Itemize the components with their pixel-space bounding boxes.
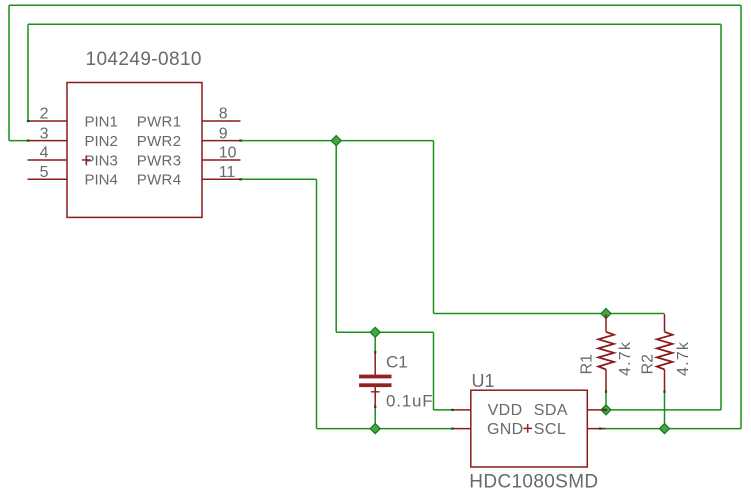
svg-text:VDD: VDD <box>488 402 523 419</box>
svg-text:2: 2 <box>40 106 49 123</box>
junction R1 top <box>601 309 611 319</box>
pin 4 stub <box>28 159 68 161</box>
pin 5 stub <box>28 178 68 180</box>
wire R1 bottom <box>605 391 607 410</box>
wire net VDD branch down from pin9 junction <box>335 141 337 333</box>
capacitor C1 plate top <box>359 375 391 379</box>
pin 9 stub <box>202 140 241 142</box>
svg-text:PWR4: PWR4 <box>137 172 182 189</box>
svg-text:PIN2: PIN2 <box>85 133 118 150</box>
svg-text:GND: GND <box>487 421 523 438</box>
svg-text:4.7k: 4.7k <box>675 341 692 376</box>
node C1 top lead joint <box>374 351 376 354</box>
capacitor C1 plate bottom <box>359 383 391 387</box>
junction C1 bottom <box>370 424 380 434</box>
svg-text:PWR2: PWR2 <box>137 133 182 150</box>
wire net SCL right vertical <box>740 5 742 428</box>
svg-text:R2: R2 <box>639 354 656 375</box>
svg-text:HDC1080SMD: HDC1080SMD <box>469 472 598 493</box>
wire C1 bottom lead <box>374 407 376 429</box>
svg-text:8: 8 <box>219 106 228 123</box>
svg-text:0.1uF: 0.1uF <box>386 392 433 411</box>
svg-text:4: 4 <box>40 145 49 162</box>
resistor R1 <box>598 314 614 391</box>
junction pin9 VDD <box>331 136 341 146</box>
connector J box 104249-0810 <box>67 83 202 218</box>
svg-text:C1: C1 <box>386 352 408 371</box>
U1 pin SDA stub <box>587 409 603 411</box>
svg-text:PIN1: PIN1 <box>85 113 118 130</box>
svg-text:3: 3 <box>40 125 49 142</box>
node U1 SCL wire joint <box>599 428 602 430</box>
wire net SCL bottom horizontal <box>600 428 741 430</box>
node C1 bottom lead joint <box>374 405 376 408</box>
svg-text:U1: U1 <box>472 371 495 391</box>
node pin9 wire joint <box>239 140 242 142</box>
wire net SDA right vertical <box>720 24 722 410</box>
wire net SCL left vertical <box>8 5 10 140</box>
node U1 SDA junction overlap <box>603 409 608 411</box>
pin 3 stub <box>28 140 67 142</box>
svg-text:104249-0810: 104249-0810 <box>86 49 202 70</box>
wire net VDD into U1 VDD pin <box>434 409 453 411</box>
node U1 GND wire joint <box>451 428 454 430</box>
svg-text:SCL: SCL <box>534 421 566 438</box>
capacitor C1 origin cross <box>371 387 380 396</box>
U1 pin VDD stub <box>453 409 471 411</box>
svg-text:PWR1: PWR1 <box>137 113 182 130</box>
pin 11 stub <box>202 178 241 180</box>
U1 pin SCL stub <box>587 428 605 430</box>
U1 pin GND stub <box>453 428 471 430</box>
pin 8 stub <box>202 120 241 122</box>
junction R2 bottom SCL <box>660 424 670 434</box>
svg-text:SDA: SDA <box>534 402 568 419</box>
capacitor C1 bottom red lead <box>374 387 376 406</box>
wire net VDD horizontal through C1 top <box>336 331 433 333</box>
junction C1 top <box>370 327 380 337</box>
svg-text:5: 5 <box>40 164 49 181</box>
wire net SCL top horizontal <box>9 4 741 6</box>
svg-text:PWR3: PWR3 <box>137 152 182 169</box>
wire net GND vertical <box>316 179 318 428</box>
svg-text:9: 9 <box>219 125 228 142</box>
svg-text:11: 11 <box>219 164 236 181</box>
connector origin cross <box>82 156 91 165</box>
node R1 lead joint <box>605 390 607 393</box>
wire net SDA bottom horizontal <box>605 409 721 411</box>
svg-text:PIN3: PIN3 <box>85 152 118 169</box>
junction R1 bottom SDA <box>601 405 611 415</box>
wire net VDD horizontal to R1 R2 tops <box>434 313 665 315</box>
U1 origin cross <box>523 424 532 433</box>
wire net SDA left vertical to pin 2 <box>27 24 29 121</box>
svg-text:10: 10 <box>219 145 237 162</box>
pin 2 stub <box>28 120 67 122</box>
node U1 VDD wire joint <box>451 409 454 411</box>
node pin3 wire joint <box>27 140 30 142</box>
svg-text:PIN4: PIN4 <box>85 172 118 189</box>
wire net VDD vertical to U1 VDD <box>433 332 435 410</box>
svg-text:R1: R1 <box>578 354 595 375</box>
wire C1 top lead <box>374 332 376 352</box>
wire net VDD from pin 9 <box>241 140 434 142</box>
resistor R2 <box>657 314 673 391</box>
IC U1 box <box>471 390 588 467</box>
wire net GND from pin 11 <box>241 178 317 180</box>
node pin11 wire joint <box>239 178 242 180</box>
wire net VDD vertical to resistor feed <box>433 141 435 314</box>
wire net GND horizontal through C1 bottom to U1 GND <box>317 428 453 430</box>
node R2 lead joint <box>663 390 665 393</box>
wire net SCL stub to pin 3 <box>9 140 28 142</box>
wire net SDA top horizontal <box>28 23 721 25</box>
node pin2 wire joint <box>27 120 30 122</box>
svg-text:4.7k: 4.7k <box>617 341 634 376</box>
pin 10 stub <box>202 159 241 161</box>
wire R2 bottom <box>664 391 666 428</box>
capacitor C1 top red lead <box>374 352 376 375</box>
